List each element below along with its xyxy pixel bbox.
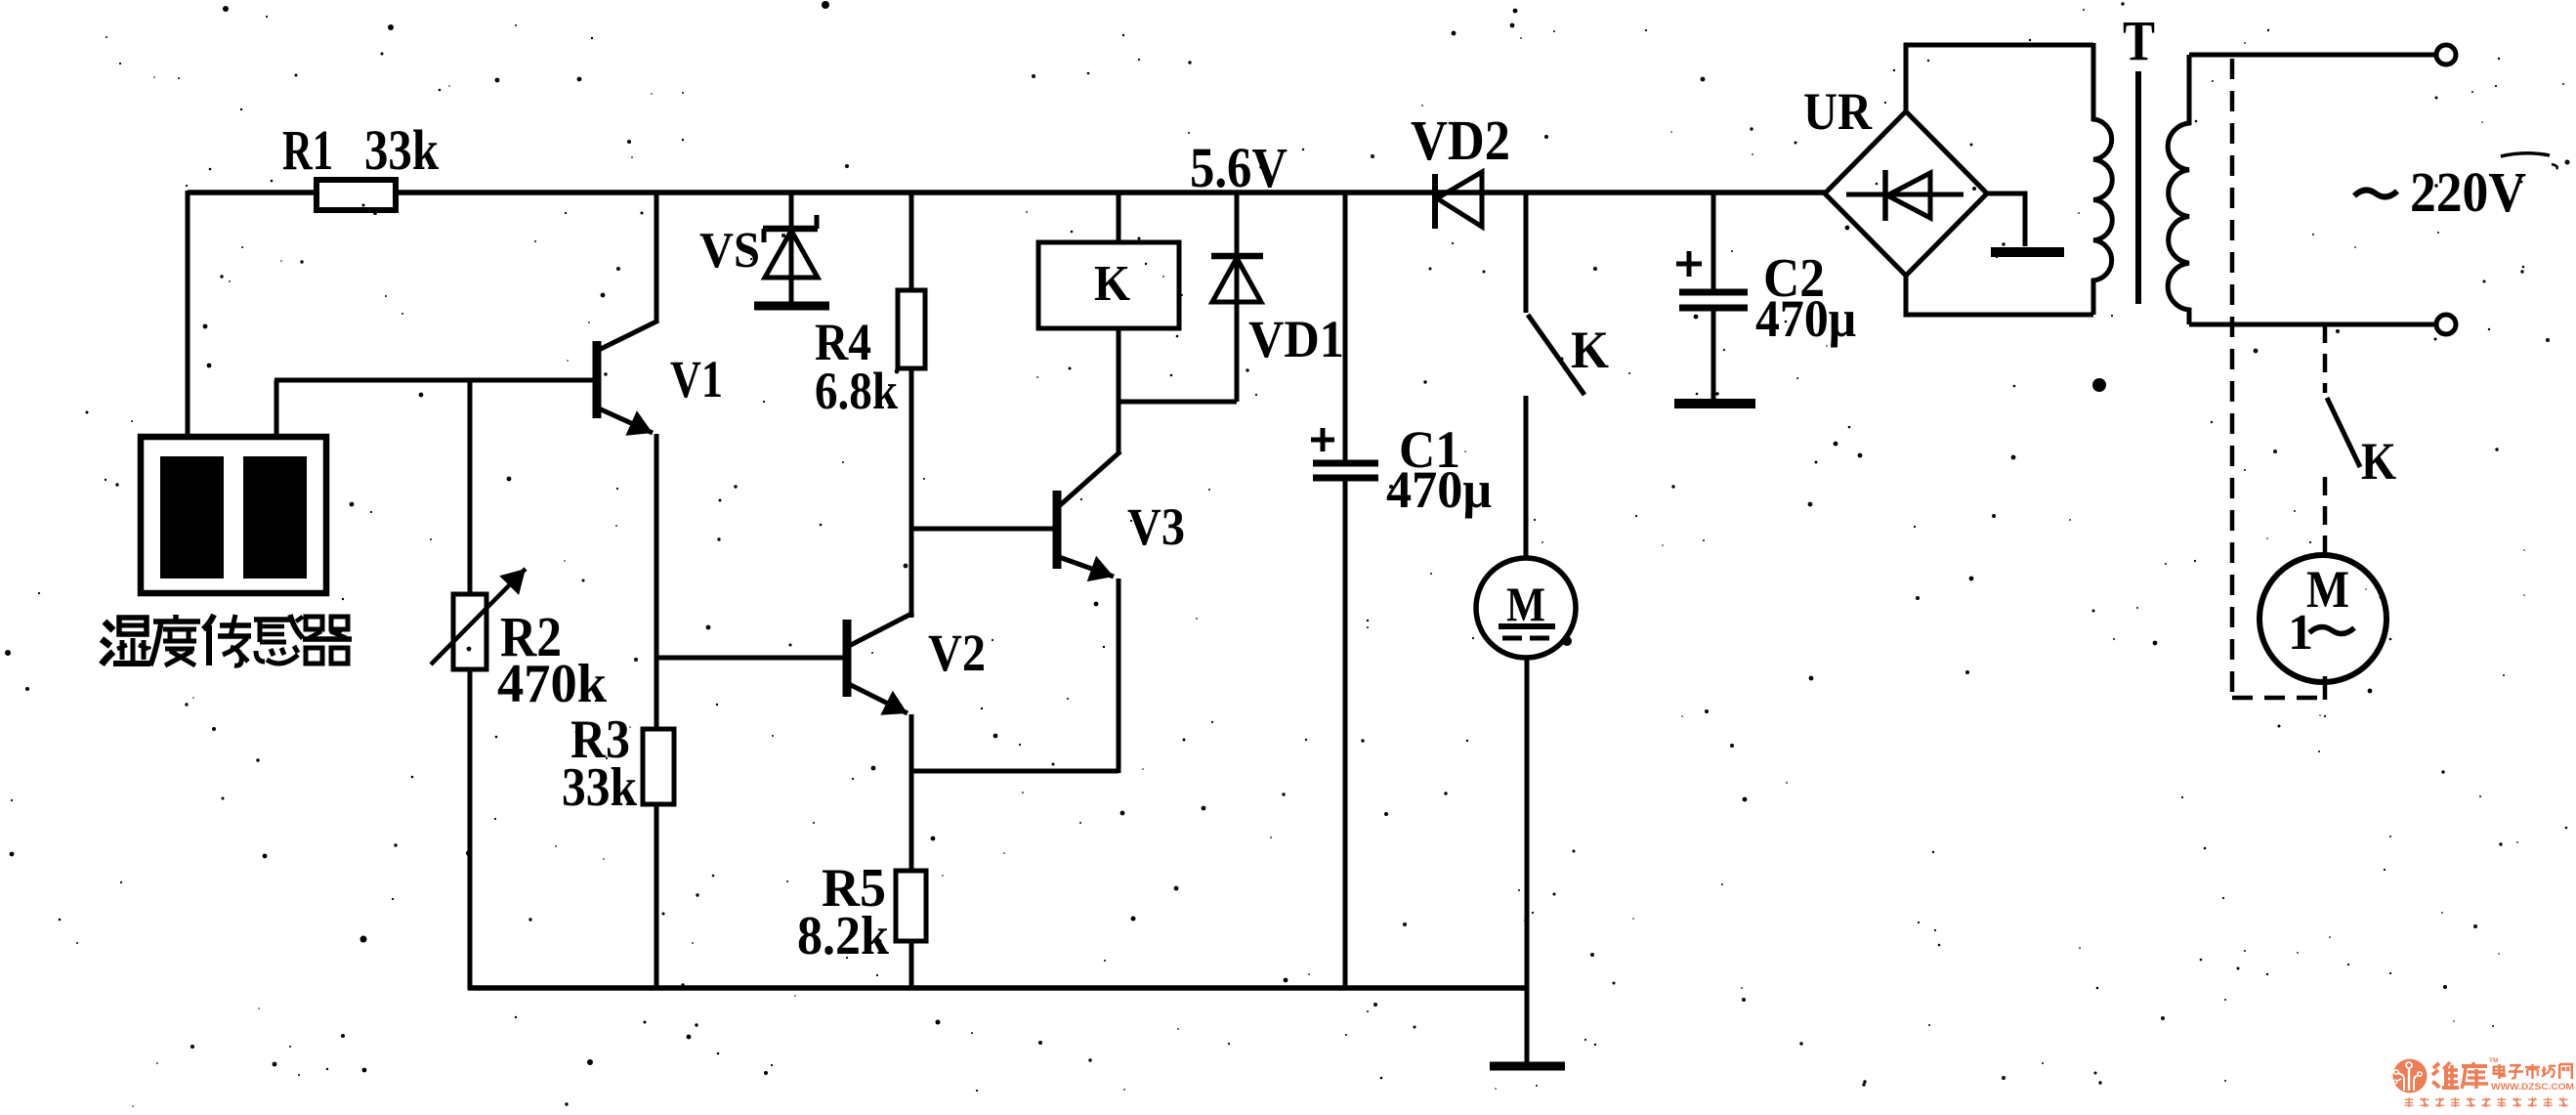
svg-text:WWW.DZSC.COM: WWW.DZSC.COM: [2491, 1082, 2574, 1093]
svg-text:6.8k: 6.8k: [815, 362, 898, 420]
svg-text:470μ: 470μ: [1755, 289, 1856, 348]
svg-text:VS: VS: [699, 223, 760, 279]
svg-text:V2: V2: [928, 623, 986, 682]
svg-text:K: K: [1571, 321, 1609, 379]
svg-text:V3: V3: [1127, 497, 1185, 556]
svg-text:M: M: [1506, 577, 1545, 631]
svg-text:VD1: VD1: [1248, 310, 1344, 368]
svg-text:T: T: [2123, 9, 2155, 72]
svg-text:470μ: 470μ: [1386, 460, 1492, 519]
svg-text:R1: R1: [282, 118, 333, 182]
svg-text:UR: UR: [1803, 82, 1873, 141]
svg-text:K: K: [2361, 432, 2396, 491]
svg-text:TM: TM: [2489, 1057, 2498, 1064]
svg-text:VD2: VD2: [1411, 108, 1510, 172]
svg-text:8.2k: 8.2k: [797, 906, 890, 966]
svg-text:33k: 33k: [364, 118, 440, 182]
svg-text:V1: V1: [670, 350, 723, 408]
svg-text:220V: 220V: [2410, 160, 2526, 224]
svg-text:K: K: [1094, 256, 1131, 312]
svg-text:470k: 470k: [497, 654, 608, 714]
svg-text:5.6V: 5.6V: [1190, 136, 1288, 199]
svg-text:33k: 33k: [562, 757, 638, 818]
